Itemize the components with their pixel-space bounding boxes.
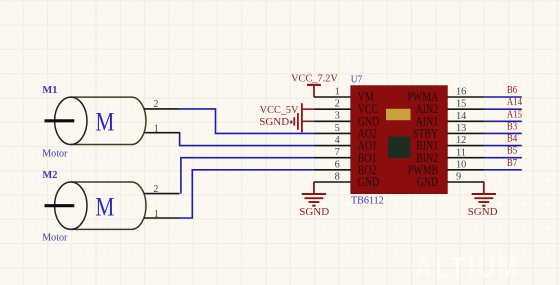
svg-text:16: 16 <box>456 87 466 98</box>
svg-text:B4: B4 <box>507 133 517 145</box>
svg-text:3: 3 <box>335 111 340 122</box>
svg-text:9: 9 <box>456 172 461 183</box>
svg-text:10: 10 <box>456 159 466 170</box>
svg-text:13: 13 <box>456 123 466 134</box>
svg-text:1: 1 <box>154 124 159 135</box>
svg-text:Motor: Motor <box>42 148 68 159</box>
svg-text:8: 8 <box>335 171 340 182</box>
svg-text:2: 2 <box>335 99 340 110</box>
svg-text:M1: M1 <box>42 84 57 96</box>
svg-text:A14: A14 <box>507 96 522 108</box>
svg-text:B5: B5 <box>507 145 517 157</box>
svg-text:15: 15 <box>456 99 466 110</box>
svg-text:11: 11 <box>456 147 466 158</box>
svg-text:6: 6 <box>335 159 340 170</box>
svg-text:GND: GND <box>417 176 438 189</box>
svg-text:14: 14 <box>456 111 466 122</box>
svg-text:12: 12 <box>456 135 466 146</box>
svg-text:SGND: SGND <box>299 206 329 218</box>
svg-text:M: M <box>95 109 114 138</box>
svg-text:U7: U7 <box>351 74 362 86</box>
svg-text:SGND: SGND <box>259 116 289 128</box>
svg-text:1: 1 <box>335 86 340 97</box>
svg-text:Motor: Motor <box>42 232 68 243</box>
svg-text:SGND: SGND <box>468 206 498 218</box>
svg-text:B3: B3 <box>507 121 517 133</box>
svg-text:B7: B7 <box>507 157 517 169</box>
svg-text:TB6112: TB6112 <box>351 195 384 206</box>
svg-text:M2: M2 <box>42 169 57 181</box>
svg-text:B6: B6 <box>507 84 517 96</box>
svg-text:5: 5 <box>335 123 340 134</box>
svg-text:7: 7 <box>335 147 340 158</box>
svg-text:ALTIUM: ALTIUM <box>415 251 520 284</box>
svg-text:A15: A15 <box>507 108 522 120</box>
svg-text:VCC_7.2V: VCC_7.2V <box>291 72 338 84</box>
svg-text:4: 4 <box>335 135 340 146</box>
svg-text:GND: GND <box>358 176 379 189</box>
svg-text:2: 2 <box>153 184 158 195</box>
svg-text:VCC_5V: VCC_5V <box>260 105 299 116</box>
svg-text:1: 1 <box>154 209 159 220</box>
svg-text:M: M <box>95 193 114 222</box>
svg-text:2: 2 <box>153 99 158 110</box>
